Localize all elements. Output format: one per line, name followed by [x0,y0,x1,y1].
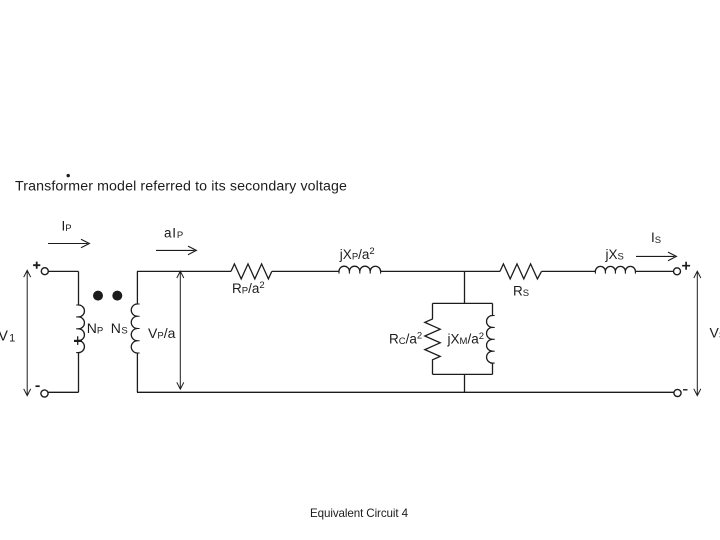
svg-text:jXP/a2: jXP/a2 [339,246,375,262]
shunt box bottom wire [433,373,493,375]
wire top: NS to RP [137,270,231,272]
svg-text:VS: VS [710,325,720,342]
wire top: jXS to right terminal [635,270,673,272]
wire secondary left vertical (top) [136,271,138,304]
svg-text:jXS: jXS [605,247,624,263]
minus sign left [36,385,40,387]
voltage arrow VS [694,271,701,395]
voltage arrow V1 [24,270,31,395]
voltage arrow VP/a [177,271,184,389]
node: shunt junction top wire [464,271,466,303]
resistor RS [500,264,542,279]
title dot [67,174,70,177]
plus sign left [33,262,40,269]
wire top: RP to jXP [272,270,339,272]
arrow IP [48,239,89,248]
inductor jXM/a2 (vertical) [487,303,493,374]
svg-text:V1: V1 [0,329,15,345]
svg-text:Transformer model referred to: Transformer model referred to its second… [15,179,347,195]
inductor NP [79,305,85,353]
svg-text:NP: NP [87,320,103,337]
svg-text:aIP: aIP [164,226,184,242]
inductor jXP/a2 [339,266,381,271]
plus mark on NP winding [74,340,82,342]
svg-text:RS: RS [513,284,529,300]
wire primary right vertical (bottom) [78,353,80,393]
wire primary right vertical (top) [78,271,80,305]
node: shunt junction bottom wire [464,374,466,392]
terminal circle - (right bottom) [674,389,681,396]
wire primary top [48,270,78,272]
svg-text:IP: IP [62,218,72,234]
wire bottom main [137,391,674,393]
arrow IS [636,252,676,261]
wire secondary left vertical (bottom) [136,353,138,392]
wire primary bottom [48,391,79,393]
polarity dot primary [93,291,103,301]
inductor jXS [595,266,635,271]
svg-text:RP/a2: RP/a2 [232,280,265,296]
svg-text:RC/a2: RC/a2 [389,331,422,347]
wire top: jXP to RS (through shunt node) [381,270,500,272]
arrow aIP [156,246,196,255]
terminal circle - (left bottom) [41,390,48,397]
plus sign right [682,262,690,270]
svg-text:IS: IS [651,230,661,246]
svg-text:NS: NS [111,320,128,337]
shunt box top wire [433,302,493,304]
svg-text:VP/a: VP/a [148,325,176,342]
minus sign right [683,389,688,391]
resistor RC/a2 (vertical) [425,303,440,374]
terminal circle + (right top) [674,268,681,275]
wire top: RS to jXS [542,270,596,272]
polarity dot secondary [112,291,122,301]
terminal circle + (left top) [41,268,48,275]
svg-text:Equivalent Circuit 4: Equivalent Circuit 4 [310,507,409,520]
inductor NS [131,304,137,353]
resistor RP/a2 [231,264,272,279]
svg-text:jXM/a2: jXM/a2 [447,331,485,347]
